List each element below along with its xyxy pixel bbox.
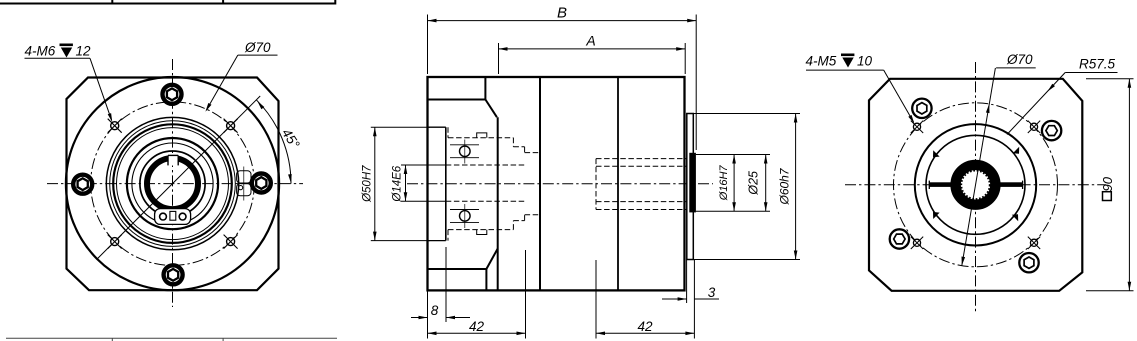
svg-text:A: A bbox=[585, 33, 595, 49]
right view index mark top-left bbox=[933, 150, 940, 157]
left view 45 degree angular dimension arc bbox=[256, 100, 291, 184]
svg-text:B: B bbox=[557, 5, 567, 22]
left view socket head cap screw W bbox=[73, 175, 92, 194]
left view keyway slot bbox=[168, 154, 178, 166]
left view bolt circle (dash-dot) bbox=[91, 102, 255, 266]
left view square flange plate outline bbox=[67, 78, 279, 291]
svg-text:Ø50H7: Ø50H7 bbox=[362, 165, 374, 203]
svg-text:Ø60h7: Ø60h7 bbox=[778, 167, 792, 205]
svg-text:Ø16H7: Ø16H7 bbox=[718, 164, 730, 201]
svg-text:3: 3 bbox=[708, 285, 716, 300]
svg-text:4-M6: 4-M6 bbox=[25, 44, 56, 59]
dimension A bbox=[499, 48, 686, 50]
right view tapped hole M5 BL bbox=[913, 239, 920, 246]
middle view ring gear housing line bbox=[497, 117, 499, 290]
middle view horizontal centerline bbox=[407, 183, 713, 185]
dimension dia50H7 bbox=[374, 127, 376, 240]
dimension 42 right bbox=[596, 332, 694, 334]
dimension dia14E6 extension lines bbox=[401, 164, 446, 166]
svg-text:4-M5: 4-M5 bbox=[806, 54, 837, 69]
middle view flange inner edge top bbox=[428, 99, 486, 101]
left view tapped hole M6 SW bbox=[111, 238, 119, 246]
left view outer pilot circle bbox=[66, 77, 279, 290]
dimension B extension lines bbox=[427, 15, 429, 75]
dimension dia25 bbox=[765, 155, 767, 212]
middle view recess top/bottom edges bbox=[428, 126, 446, 128]
right view clamp slot left bbox=[929, 182, 951, 187]
right view clamp slot right bbox=[999, 182, 1022, 187]
dimension B bbox=[428, 20, 697, 22]
right view outer circle bbox=[915, 124, 1036, 245]
dimension dia16H7 extension lines bbox=[696, 154, 770, 156]
dimension square-90 bbox=[1128, 79, 1130, 291]
dimension A extension lines bbox=[498, 43, 500, 74]
middle view hidden coupling hub (dashed) bbox=[448, 137, 513, 139]
middle view body outline bbox=[428, 77, 685, 290]
left view bearing inner race circle bbox=[140, 151, 205, 216]
dimension 8 bbox=[411, 317, 428, 319]
right view index mark bottom-right bbox=[1012, 214, 1018, 221]
svg-text:Ø25: Ø25 bbox=[747, 171, 761, 196]
svg-text:8: 8 bbox=[431, 303, 439, 318]
svg-text:42: 42 bbox=[637, 319, 653, 334]
right view horizontal centerline bbox=[845, 184, 1106, 186]
svg-text:Ø70: Ø70 bbox=[244, 40, 271, 55]
middle view hidden output shaft (dashed) bbox=[596, 158, 687, 160]
middle view body joint line 2 bbox=[617, 77, 619, 290]
left view socket head cap screw S bbox=[164, 265, 183, 284]
left view socket head cap screw N bbox=[163, 85, 182, 104]
dimension square-90 extension lines bbox=[1086, 78, 1134, 80]
left view bearing outer race circle bbox=[127, 138, 218, 229]
right view socket head cap screw BL bbox=[890, 229, 909, 248]
left view tapped hole M6 NE bbox=[227, 122, 235, 130]
dimension dia50H7 extension lines bbox=[371, 126, 430, 128]
svg-text:12: 12 bbox=[76, 44, 92, 59]
right view socket head cap screw TR bbox=[1042, 121, 1061, 140]
right view socket head cap screw BR bbox=[1019, 253, 1038, 272]
left view tapped hole M6 NW bbox=[111, 122, 119, 130]
middle view output flange plate bbox=[687, 114, 694, 260]
middle view flange step verticals bbox=[484, 77, 486, 100]
title block table top bbox=[0, 3, 336, 5]
middle view coupling clamp screw top bbox=[460, 146, 471, 157]
middle view input recess bore line bbox=[445, 127, 447, 240]
left view set-screw detail at 3 o'clock bbox=[237, 171, 251, 183]
svg-text:42: 42 bbox=[469, 319, 485, 334]
middle view hidden input bore (dashed) bbox=[446, 164, 525, 166]
title block table bottom bbox=[6, 337, 337, 339]
right view spline teeth bbox=[961, 171, 989, 199]
svg-text:10: 10 bbox=[857, 54, 873, 69]
dimension dia60h7 extension lines bbox=[691, 113, 801, 115]
right view splined hub ring bbox=[956, 165, 996, 205]
right view socket head cap screw TL bbox=[912, 99, 931, 118]
svg-text:Ø14E6: Ø14E6 bbox=[392, 165, 404, 202]
left view bearing cage circle bbox=[132, 143, 213, 224]
right view square flange plate outline bbox=[869, 79, 1082, 291]
svg-text:R57.5: R57.5 bbox=[1079, 57, 1116, 72]
middle view output shaft end (solid black) bbox=[689, 153, 696, 213]
right view tapped hole M5 BR bbox=[1030, 239, 1037, 246]
right view vertical centerline bbox=[975, 62, 977, 314]
middle view body joint line 1 bbox=[539, 77, 541, 290]
left view shaft bore ring bbox=[147, 158, 198, 209]
left view dia70 leader bbox=[206, 55, 238, 110]
right view index mark top-right bbox=[1013, 147, 1019, 154]
dimension 42 left bbox=[428, 332, 526, 334]
middle view flange inner edge bottom bbox=[428, 268, 487, 270]
right view index mark bottom-left bbox=[933, 212, 940, 219]
svg-text:90: 90 bbox=[1100, 176, 1115, 191]
middle view coupling clamp screw bottom bbox=[460, 211, 471, 222]
left view housing circle r66 bbox=[106, 117, 238, 249]
right view tapped hole M5 TL bbox=[913, 123, 920, 130]
left view circle r56 bbox=[117, 128, 229, 240]
left view 45deg diagonal centerline bbox=[97, 96, 261, 260]
left view retaining ring lug detail bbox=[155, 209, 191, 225]
right view bolt circle (dash-dot) bbox=[894, 103, 1058, 267]
left view socket head cap screw E bbox=[252, 174, 271, 193]
left view horizontal centerline bbox=[47, 183, 303, 185]
dimension dia60h7 bbox=[795, 114, 797, 260]
dimension dia16H7 bbox=[733, 155, 735, 212]
bottom extension lines bbox=[427, 290, 429, 338]
dimension dia14E6 bbox=[405, 165, 407, 201]
right view inner circle bbox=[926, 135, 1025, 234]
left view bearing seat circle r59.5 bbox=[113, 124, 232, 243]
left view vertical centerline bbox=[172, 59, 174, 307]
right view tapped hole M5 TR bbox=[1030, 123, 1037, 130]
svg-text:Ø70: Ø70 bbox=[1006, 52, 1033, 67]
dimension 3 bbox=[662, 298, 687, 300]
left view tapped hole M6 SE bbox=[227, 238, 235, 246]
middle view chamfer diagonals bbox=[485, 100, 497, 118]
left view circle r63 bbox=[110, 121, 236, 247]
